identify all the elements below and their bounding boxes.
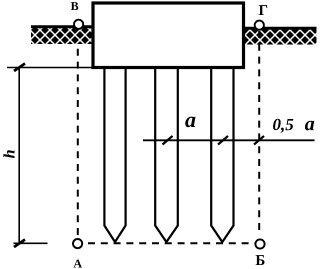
svg-text:h: h — [1, 149, 18, 158]
svg-text:0,5a: 0,5a — [272, 113, 314, 135]
svg-text:Б: Б — [255, 253, 265, 269]
svg-text:А: А — [73, 256, 82, 269]
svg-text:a: a — [185, 107, 196, 132]
svg-text:Г: Г — [259, 3, 269, 19]
svg-text:В: В — [71, 0, 79, 13]
